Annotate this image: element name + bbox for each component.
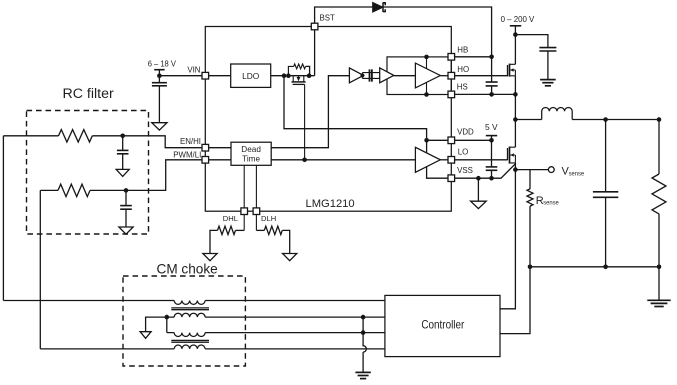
wire choke gnd tap [146,317,167,332]
wire EN/HI input row [3,135,58,137]
svg-text:PWM/LI: PWM/LI [173,150,201,159]
svg-text:DLH: DLH [261,214,276,223]
node VDD tap [424,138,429,143]
resistor R6 (DHL) [236,229,245,231]
pin PWM/LI [202,157,209,164]
pin VDD [448,137,455,144]
ground (earth) below tie [355,371,370,373]
wire VSS ground stem [477,178,479,201]
inductor T1 winding 4 [40,345,205,349]
op-amp U5 low-side gate driver [415,147,440,172]
capacitor C4 bootstrap [491,57,493,95]
node HB junction [489,55,494,60]
node 5V-VDD [489,138,494,143]
node differential split [360,74,364,78]
transistor Q2 low-side FET [507,148,509,160]
wire HS pin to FET source [455,93,516,95]
ground (signal) below C3 [152,123,167,130]
wire diode to HB node [382,7,492,57]
wire Dead Time LI output [271,159,415,161]
capacitor C6 (VDD bypass) [491,140,493,178]
wire controller sense input [500,170,515,309]
node load top [657,117,662,122]
svg-text:LDO: LDO [242,71,260,81]
isolation barrier caps [370,69,372,81]
wire VDD pin to 5V node [455,139,492,141]
resistor R4 load [658,120,660,175]
node VSS ground tap [476,176,481,181]
wire VIN to LDO [209,75,231,77]
svg-text:Dead: Dead [241,145,261,154]
resistor R1 (RC filter top) [59,130,93,142]
svg-text:0 – 200 V: 0 – 200 V [501,14,535,24]
node HS rail tap [424,92,429,97]
core bars bottom [171,340,209,342]
buffer U2 (level shift in) [349,68,363,83]
svg-text:RC filter: RC filter [63,86,115,102]
pin HB [448,54,455,61]
capacitor C5 (HV bus) [539,47,556,49]
node HB rail tap [424,55,429,60]
wire bootstrap switch gate riser [304,84,306,159]
CM choke dashed box [123,276,245,366]
node RC1 [120,134,125,139]
pin DLH [253,208,260,215]
wire Vsense line [515,169,548,171]
node RC2 [124,188,129,193]
svg-text:CM choke: CM choke [157,261,218,276]
ground (signal) below C2 [119,227,133,234]
wire choke line 4 right [205,348,385,350]
wire choke line 1 left [3,300,174,302]
wire resistor right riser [306,66,310,75]
node HS source junction [513,92,518,97]
wire inductor to output node [572,119,659,121]
wire differential pair across isolation [362,73,379,79]
supply bar 0-200V [510,25,521,27]
wire Q2 source to sense node [514,163,516,170]
wire HB pin to bootstrap cap [455,56,492,58]
diode D1 bootstrap [373,3,383,12]
node C6-VSS [489,176,494,181]
ground (signal) below VSS [471,201,487,208]
capacitor C2 (RC filter bottom) [125,190,127,227]
svg-text:HB: HB [457,46,468,55]
inductor L1 [542,107,573,119]
wire driver out to LO pin [440,159,448,161]
wire choke line 2 right [205,316,385,318]
svg-text:Time: Time [242,154,260,163]
wire DLH internal [255,165,257,230]
node Vsense terminal [548,167,554,173]
wire HV branch to C5 [515,35,548,48]
node HV supply branch [513,32,518,37]
wire HO pin to Q1 gate [455,75,508,77]
pin VIN [202,72,209,79]
buffer U3 (level shift out) [380,68,394,83]
resistor R5 Rsense [527,189,533,206]
wire R2 to PWM/LI pin [90,160,202,191]
ground (signal) below R6 [203,254,217,261]
svg-text:DHL: DHL [223,214,238,223]
wire 6-18V to VIN [159,70,202,76]
wire ground rail [530,266,659,268]
svg-text:6 – 18 V: 6 – 18 V [148,59,177,69]
node LI-gate junction [302,158,307,163]
svg-text:EN/HI: EN/HI [180,137,201,146]
wire choke gnd tie vertical [166,317,168,333]
wire LO pin to Q2 gate [455,159,508,161]
svg-text:BST: BST [320,14,336,23]
svg-text:5 V: 5 V [485,122,498,132]
node resistor-left [286,73,291,78]
wire far-left vertical from R1 row to CM choke line 1 [2,136,4,301]
svg-text:Controller: Controller [421,318,464,332]
ground (earth) below load [647,299,670,301]
wire PWM/LI input row [40,189,58,191]
svg-text:VSS: VSS [457,166,473,175]
pin BST [311,23,318,30]
svg-text:HO: HO [457,65,469,74]
pin LO [448,157,455,164]
pin VSS [448,175,455,182]
wire driver out to HO pin [440,75,448,77]
transistor Q3 bootstrap switch [293,76,304,82]
pin EN/HI [202,144,209,151]
node resistor-right [307,73,312,78]
wire switch node to inductor [515,119,541,121]
svg-text:sense: sense [569,170,585,177]
LMG1210 chip outline [205,27,451,212]
node output LC [603,117,608,122]
node choke ground [165,315,170,320]
Dead Time block [231,142,271,165]
high-side floating domain box [387,57,451,95]
wire HS rail tap [426,82,428,94]
node rail-Rsense [528,265,533,270]
wire choke line 1 right [205,300,385,302]
wire Rsense top [529,170,531,189]
wire BST to top rail [315,7,373,23]
wire Dead Time HI output [271,76,349,148]
supply bar 5V [486,135,497,137]
svg-text:LMG1210: LMG1210 [306,198,355,210]
capacitor C7 output [605,120,607,267]
wire HB rail tap [426,57,428,69]
wire Rsense to rail and controller [500,206,530,334]
wire gnd tie with hop over line4 [363,317,366,372]
wire VDD tap to VDD pin [427,139,448,141]
LDO block U-LDO [231,64,271,87]
supply bar 6-18V [154,69,164,71]
op-amp U4 high-side gate driver [415,63,440,88]
wire U3 to high driver [394,75,416,77]
node rail-C7 [603,265,608,270]
resistor R3 (bootstrap switch parallel) [288,64,305,76]
resistor R2 (RC filter bottom) [58,184,90,196]
svg-text:VDD: VDD [457,128,474,137]
wire DHL internal [243,165,245,230]
core bars top [171,308,209,310]
wire low driver top tap [426,140,428,152]
node gnd tie line2 [361,315,366,320]
wire switch node vertical [514,76,516,147]
ground (signal) below C1 [116,169,129,176]
wire EN/HI to Dead Time [209,147,231,149]
wire R1 to EN/HI pin [92,136,202,148]
inductor T1 winding 2 [167,313,205,317]
capacitor C1 (RC filter top) [122,136,124,170]
ground (earth) below C5 [540,79,556,81]
svg-text:LO: LO [458,148,469,157]
inductor T1 winding 3 [167,333,205,337]
wire BST internal riser [314,30,316,76]
svg-text:sense: sense [543,200,559,207]
ground (signal) choke [140,332,151,339]
inductor T1 winding 1 [174,301,205,305]
wire 5V to VDD [491,136,493,141]
wire choke line 3 right [205,332,385,334]
pin DHL [241,208,248,215]
node switch node [513,117,518,122]
node gnd tie line3 [361,330,366,335]
wire VSS pin external [455,164,516,178]
node HS-cap junction [489,92,494,97]
wire low driver bottom tap to VSS pin [427,166,448,178]
wire left vertical from R2 row to CM choke line 4 [39,190,41,349]
svg-text:HS: HS [457,83,468,92]
node source sense [513,167,518,172]
RC filter dashed box [27,111,149,235]
wire LDO output rail [271,75,315,77]
node rail-load [657,265,662,270]
transistor Q1 high-side FET [507,65,509,76]
wire PWM/LI to Dead Time [209,159,231,161]
pin HO [448,72,455,79]
svg-text:VIN: VIN [187,65,200,74]
Controller block [385,295,500,356]
pin HS [448,91,455,98]
capacitor C3 (VIN bypass) [158,76,160,123]
wire internal VDD rail [284,76,427,141]
node VIN supply [157,73,162,78]
ground (signal) below R7 [283,254,297,261]
node LDO out A [282,73,287,78]
resistor R7 (DLH) [256,229,264,231]
wire 0-200V down [514,26,516,65]
